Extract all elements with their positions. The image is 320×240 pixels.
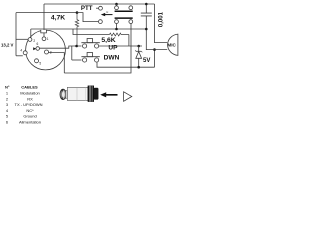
switch DWN pushbutton (83, 58, 87, 62)
svg-text:tx: tx (106, 10, 109, 14)
svg-text:DWN: DWN (104, 54, 120, 61)
wire top rail right drop to mic top (155, 4, 168, 43)
switch PTT row2 (99, 20, 103, 24)
arrow 13,2V supply (33, 47, 36, 50)
pin 5 bottom (35, 59, 39, 63)
arrow insertion (100, 92, 132, 102)
switch PTT row1 (116, 4, 118, 6)
svg-text:3: 3 (6, 102, 9, 107)
resistor R1 4,7K vertical zigzag (75, 13, 78, 47)
svg-text:MIC: MIC (167, 42, 176, 47)
wire pin TL left (16, 38, 28, 40)
svg-text:Ground: Ground (23, 114, 36, 119)
svg-text:Alimentation: Alimentation (19, 120, 41, 125)
wire left loop bottom to pin BL (16, 55, 23, 57)
svg-text:0,001: 0,001 (158, 11, 164, 27)
svg-text:2: 2 (33, 39, 35, 43)
node junction zener bottom (137, 66, 140, 69)
svg-text:6: 6 (6, 120, 9, 125)
plug photo drawing (60, 86, 98, 102)
svg-text:PTT: PTT (81, 5, 93, 12)
wire R5 rail (31, 28, 147, 30)
pin 1 (42, 37, 46, 41)
svg-text:1: 1 (47, 37, 49, 41)
plug body (67, 87, 88, 100)
svg-text:1: 1 (6, 91, 9, 96)
connector circle (26, 30, 66, 70)
svg-text:5: 5 (39, 62, 41, 66)
svg-text:UP: UP (108, 45, 118, 52)
node junction cap top rail (145, 3, 148, 6)
wire B branch (73, 29, 110, 35)
node junction zener top (137, 45, 140, 48)
wire DWN row (72, 59, 82, 61)
wire 4,7K rail to PTT A2 (77, 13, 98, 22)
node junction mic bottom (153, 48, 156, 51)
plug neck (66, 90, 68, 98)
plug knurled ring (88, 86, 94, 102)
pin 4 BL (23, 51, 27, 55)
svg-text:4: 4 (6, 108, 9, 113)
node junction UP row 4,7K (75, 45, 78, 48)
switch UP pushbutton (83, 44, 87, 48)
connector notch (41, 30, 47, 33)
wire ground riser to mic bottom (154, 50, 156, 68)
svg-text:6: 6 (37, 42, 39, 46)
svg-text:NC*: NC* (26, 108, 34, 113)
wire B down to UP row (128, 35, 130, 47)
svg-text:TX - UP/DOWN: TX - UP/DOWN (15, 102, 43, 107)
node junction R5 PTT (115, 28, 118, 31)
svg-text:RX: RX (27, 96, 33, 101)
svg-text:5V: 5V (143, 58, 150, 64)
svg-text:4,7K: 4,7K (51, 15, 65, 22)
svg-text:3: 3 (50, 50, 52, 54)
wire pin3 to DWN row (48, 53, 64, 73)
pin 2 TL (28, 38, 32, 42)
wire bottom TX rail (64, 24, 131, 74)
svg-text:4: 4 (20, 49, 22, 53)
arrow PTT tx direction (105, 14, 113, 16)
wire DWN riser (71, 46, 73, 60)
wire pin TL up to R5 rail (30, 29, 32, 38)
svg-text:2: 2 (6, 96, 9, 101)
socket triangle (124, 92, 132, 102)
legend table (5, 84, 43, 124)
plug tip (94, 88, 98, 99)
svg-text:13,2 V: 13,2 V (1, 43, 14, 48)
node junction cap R5 rail (145, 28, 148, 31)
wire pin1 up (43, 4, 45, 37)
resistor R2 5,6K horizontal zigzag (110, 33, 129, 36)
wire DWN right contact down to ground rail (97, 62, 155, 67)
svg-text:Modulation: Modulation (20, 91, 40, 96)
node junction 4,7K rail (76, 11, 79, 14)
wire top rail (44, 3, 155, 5)
wire 4,7K rail (16, 12, 77, 14)
capacitor C1 0,001 (145, 4, 147, 29)
wire pin6 feed to UP row (40, 46, 82, 48)
wire UP row to zener (99, 45, 142, 47)
svg-text:5,6K: 5,6K (101, 37, 115, 44)
svg-text:CABLES: CABLES (21, 84, 38, 89)
microphone MIC (168, 34, 178, 55)
pin 6 center (36, 47, 40, 51)
pin 3 right (45, 50, 49, 54)
svg-text:5: 5 (6, 114, 9, 119)
node junction top rail PTT (115, 3, 118, 6)
zener D1 5V (138, 46, 140, 51)
svg-text:N°: N° (5, 84, 10, 89)
wire left loop vertical (15, 13, 17, 56)
plug cable end cap (60, 89, 66, 99)
